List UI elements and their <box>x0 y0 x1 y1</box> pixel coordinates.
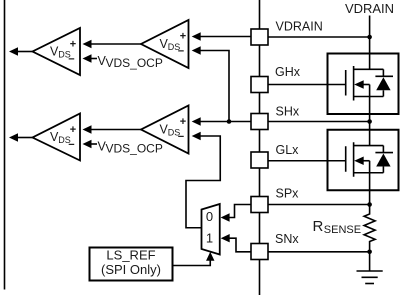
wire: U3 - input from mux output <box>186 136 220 228</box>
svg-text:SPx: SPx <box>276 187 300 201</box>
op-amp U2: high-side VDS comparator <box>33 28 81 75</box>
label SNx pin <box>275 232 299 246</box>
junction dot SHx <box>367 119 372 124</box>
svg-text:VDRAIN: VDRAIN <box>345 1 394 16</box>
label VDRAIN pin <box>276 20 323 34</box>
wire: U3 output to comparator U4 + input <box>91 129 141 131</box>
wire: SPx net from box to Q2 source junction <box>268 204 370 206</box>
wire: VDRAIN vertical to junction and FET Q1 drain <box>369 16 371 70</box>
terminal box SPx <box>251 197 268 213</box>
junction dot on SHx input line <box>227 119 232 124</box>
wire: VDRAIN to amplifier U1 + input <box>200 36 251 38</box>
svg-text:−: − <box>178 46 184 58</box>
terminal box SHx <box>251 114 268 130</box>
svg-text:GHx: GHx <box>275 65 301 79</box>
LS_REF block <box>90 248 173 281</box>
wire: center vertical bus <box>259 0 261 295</box>
svg-text:−: − <box>178 131 184 143</box>
label RSENSE <box>313 218 362 236</box>
svg-text:VDRAIN: VDRAIN <box>276 20 323 34</box>
svg-text:SNx: SNx <box>275 232 299 246</box>
svg-text:LS_REF: LS_REF <box>106 248 155 263</box>
wire: U4 output arrow to left bus <box>18 137 33 139</box>
wire: U1 - input from SHx net <box>200 51 229 122</box>
terminal box GLx <box>251 152 268 168</box>
wire: VDRAIN horizontal from terminal box to junction <box>268 36 370 38</box>
node VDRAIN: top supply label <box>345 1 394 16</box>
svg-text:SENSE: SENSE <box>324 224 361 236</box>
label GHx pin <box>275 65 301 79</box>
wire: SHx net from box to Q1 source / Q2 drain junction <box>268 121 370 123</box>
wire: GHx net to Q1 gate <box>268 84 346 86</box>
svg-text:0: 0 <box>206 209 213 224</box>
svg-text:+: + <box>180 31 186 43</box>
svg-text:+: + <box>70 124 76 136</box>
wire: SNx to mux input 1 <box>230 238 252 252</box>
wire: LS_REF to mux select <box>173 261 211 266</box>
label SPx pin <box>276 187 300 201</box>
svg-text:VDS_OCP: VDS_OCP <box>106 142 163 156</box>
wire: VVDS_OCP threshold into U2 - input <box>91 58 97 60</box>
terminal box SNx <box>251 244 268 260</box>
svg-text:+: + <box>180 116 186 128</box>
svg-text:−: − <box>68 54 74 66</box>
junction dot VDRAIN <box>367 35 372 40</box>
junction dot SPx <box>367 202 372 207</box>
svg-text:SHx: SHx <box>276 105 300 119</box>
wire: mid vertical Q1 source to Q2 drain <box>369 85 371 146</box>
wire: SNx net from box to RSENSE bottom junction <box>268 251 370 253</box>
svg-text:R: R <box>313 218 324 235</box>
mux: SPx/SNx select <box>202 204 220 255</box>
op-amp U4: low-side VDS comparator <box>33 114 81 161</box>
svg-text:VDS_OCP: VDS_OCP <box>106 56 163 70</box>
transistor Q2: low-side MOSFET with body diode <box>328 130 399 191</box>
wire: left vertical edge line <box>4 0 6 290</box>
op-amp U1: high-side VDS amplifier <box>141 20 189 68</box>
svg-text:+: + <box>70 39 76 51</box>
svg-text:1: 1 <box>206 230 213 245</box>
junction dot SNx <box>367 250 372 255</box>
node VVDS_OCP label (row 1) <box>98 54 163 70</box>
wire: VVDS_OCP threshold into U4 - input <box>91 143 97 145</box>
wire: GLx net to Q2 gate <box>268 160 346 162</box>
wire: U2 output arrow to left bus <box>18 51 33 53</box>
wire: SHx to amplifier U3 + input <box>200 121 251 123</box>
ground <box>369 252 371 271</box>
svg-text:GLx: GLx <box>276 143 300 157</box>
transistor Q1: high-side MOSFET with body diode <box>328 54 399 115</box>
wire: Q2 source down to SPx junction <box>369 161 371 205</box>
node VVDS_OCP label (row 2) <box>98 140 163 156</box>
terminal box VDRAIN <box>251 29 268 45</box>
svg-text:−: − <box>68 139 74 151</box>
label SHx pin <box>276 105 300 119</box>
op-amp U3: low-side VDS amplifier <box>141 106 189 154</box>
terminal box GHx <box>251 77 268 93</box>
svg-text:(SPI Only): (SPI Only) <box>101 262 161 277</box>
wire: U1 output to comparator U2 + input <box>91 43 141 45</box>
wire: SPx to mux input 0 <box>230 205 252 218</box>
resistor RSENSE <box>364 205 375 252</box>
label GLx pin <box>276 143 300 157</box>
